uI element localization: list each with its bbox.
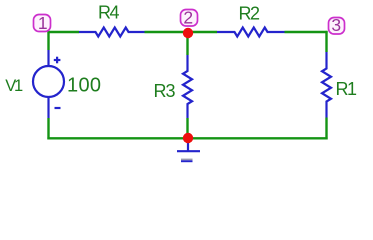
- svg-text:V1: V1: [5, 77, 23, 95]
- svg-text:R3: R3: [154, 81, 176, 101]
- svg-text:R1: R1: [336, 79, 358, 99]
- svg-text:3: 3: [331, 15, 341, 35]
- svg-text:R2: R2: [239, 4, 261, 24]
- svg-text:1: 1: [38, 13, 48, 33]
- svg-text:100: 100: [67, 75, 101, 97]
- svg-text:R4: R4: [98, 3, 120, 23]
- svg-text:2: 2: [183, 7, 193, 27]
